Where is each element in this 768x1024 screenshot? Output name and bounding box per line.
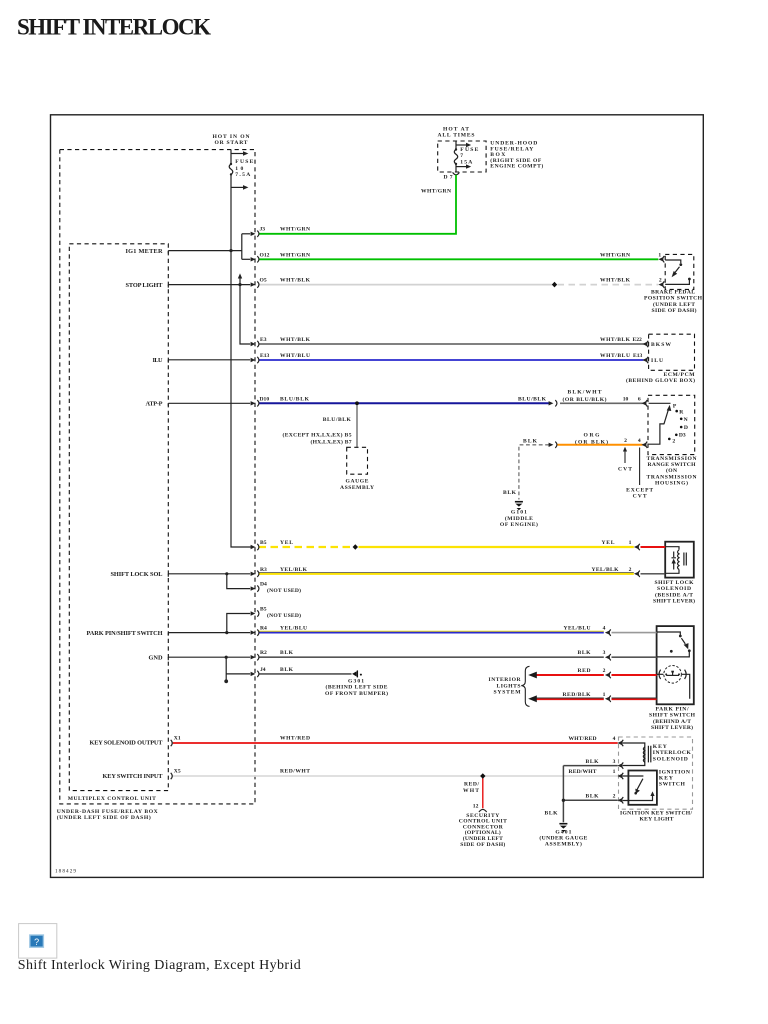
- svg-text:1: 1: [613, 769, 616, 775]
- svg-text:HOUSING): HOUSING): [655, 480, 688, 487]
- svg-text:OF ENGINE): OF ENGINE): [500, 521, 538, 528]
- svg-text:WHT: WHT: [463, 788, 479, 794]
- svg-text:BLK: BLK: [280, 667, 294, 673]
- svg-text:SHIFT LOCK: SHIFT LOCK: [655, 580, 695, 586]
- svg-text:YEL/BLU: YEL/BLU: [280, 626, 307, 632]
- svg-text:POSITION SWITCH: POSITION SWITCH: [644, 296, 703, 302]
- svg-text:E13: E13: [260, 353, 270, 359]
- svg-text:ATP-P: ATP-P: [146, 401, 163, 408]
- svg-text:BLU/BLK: BLU/BLK: [280, 396, 310, 402]
- svg-text:SOLENOID: SOLENOID: [657, 586, 691, 592]
- svg-text:D7: D7: [444, 174, 453, 180]
- svg-text:IGNITION KEY SWITCH/: IGNITION KEY SWITCH/: [620, 811, 692, 817]
- svg-text:RED/WHT: RED/WHT: [280, 769, 310, 775]
- svg-text:SHIFT LEVER): SHIFT LEVER): [653, 598, 695, 605]
- svg-text:R: R: [679, 410, 684, 416]
- svg-text:E13: E13: [633, 353, 643, 359]
- svg-text:(NOT USED): (NOT USED): [267, 612, 301, 619]
- svg-text:FUSE: FUSE: [235, 159, 253, 165]
- svg-text:WHT/BLK: WHT/BLK: [280, 337, 311, 343]
- svg-text:SWITCH: SWITCH: [659, 782, 686, 788]
- svg-text:YEL: YEL: [602, 540, 615, 546]
- svg-text:(BEHIND GLOVE BOX): (BEHIND GLOVE BOX): [626, 377, 695, 384]
- svg-text:(UNDER LEFT SIDE OF DASH): (UNDER LEFT SIDE OF DASH): [57, 814, 151, 821]
- svg-text:(OR BLK): (OR BLK): [575, 438, 608, 445]
- svg-text:BLK: BLK: [523, 438, 538, 444]
- svg-text:IGNITION: IGNITION: [659, 769, 690, 775]
- svg-text:(BESIDE A/T: (BESIDE A/T: [655, 591, 693, 598]
- svg-text:LIGHTS: LIGHTS: [497, 683, 521, 689]
- svg-text:ASSEMBLY): ASSEMBLY): [545, 840, 582, 847]
- svg-text:2: 2: [672, 439, 675, 445]
- svg-text:R3: R3: [260, 567, 267, 573]
- svg-text:WHT/BLK: WHT/BLK: [600, 337, 631, 343]
- svg-text:YEL/BLU: YEL/BLU: [564, 626, 591, 632]
- svg-text:X1: X1: [174, 736, 181, 742]
- svg-text:R2: R2: [260, 650, 267, 656]
- svg-text:X5: X5: [174, 769, 181, 775]
- svg-text:(BEHIND A/T: (BEHIND A/T: [653, 718, 691, 725]
- svg-text:RED/BLK: RED/BLK: [563, 692, 592, 698]
- svg-text:PARK PIN/: PARK PIN/: [656, 707, 689, 713]
- svg-text:O5: O5: [260, 278, 267, 284]
- svg-text:J3: J3: [260, 227, 266, 233]
- svg-text:7: 7: [460, 153, 463, 159]
- svg-text:CVT: CVT: [633, 494, 647, 500]
- svg-text:YEL/BLK: YEL/BLK: [592, 567, 620, 573]
- svg-text:INTERIOR: INTERIOR: [489, 677, 522, 683]
- svg-text:PARK PIN/SHIFT SWITCH: PARK PIN/SHIFT SWITCH: [87, 630, 163, 637]
- svg-text:BLK: BLK: [578, 650, 592, 656]
- svg-text:YEL/BLK: YEL/BLK: [280, 567, 308, 573]
- svg-text:ENGINE COMPT): ENGINE COMPT): [490, 163, 543, 170]
- svg-text:KEY: KEY: [653, 744, 667, 750]
- svg-text:(UNDER LEFT: (UNDER LEFT: [653, 301, 695, 308]
- svg-text:KEY LIGHT: KEY LIGHT: [640, 817, 674, 823]
- svg-text:BLK: BLK: [280, 650, 294, 656]
- svg-text:G101: G101: [511, 510, 527, 516]
- svg-text:P: P: [673, 404, 677, 410]
- svg-text:GND: GND: [149, 654, 163, 661]
- svg-text:BLU/BLK: BLU/BLK: [518, 396, 547, 402]
- svg-text:CVT: CVT: [618, 466, 632, 472]
- svg-text:SIDE OF DASH): SIDE OF DASH): [652, 307, 697, 314]
- svg-text:188429: 188429: [55, 869, 76, 875]
- svg-text:ASSEMBLY: ASSEMBLY: [340, 485, 374, 491]
- svg-text:SHIFT LOCK SOL: SHIFT LOCK SOL: [111, 571, 163, 578]
- svg-text:2: 2: [613, 793, 616, 799]
- svg-text:WHT/BLU: WHT/BLU: [600, 353, 630, 359]
- svg-text:ILU: ILU: [153, 357, 163, 364]
- svg-text:EXCEPT: EXCEPT: [626, 488, 653, 494]
- svg-text:TRANSMISSION: TRANSMISSION: [647, 474, 697, 480]
- svg-text:YEL: YEL: [280, 540, 293, 546]
- svg-text:G301: G301: [348, 679, 364, 685]
- svg-text:4: 4: [613, 736, 616, 742]
- svg-text:2: 2: [629, 567, 632, 573]
- svg-text:WHT/GRN: WHT/GRN: [280, 227, 310, 233]
- svg-text:WHT/GRN: WHT/GRN: [280, 252, 310, 258]
- svg-text:3: 3: [603, 650, 606, 656]
- svg-text:N: N: [684, 417, 688, 423]
- svg-text:J4: J4: [260, 667, 266, 673]
- svg-text:E3: E3: [260, 337, 267, 343]
- svg-text:2: 2: [624, 438, 627, 444]
- svg-text:3: 3: [613, 759, 616, 765]
- svg-text:1: 1: [629, 540, 632, 546]
- svg-text:SIDE OF DASH): SIDE OF DASH): [460, 841, 505, 848]
- svg-text:WHT/GRN: WHT/GRN: [421, 189, 451, 195]
- svg-text:(MIDDLE: (MIDDLE: [505, 515, 533, 522]
- svg-text:KEY SOLENOID OUTPUT: KEY SOLENOID OUTPUT: [90, 740, 164, 747]
- svg-text:(EXCEPT HX,LX,EX) B5: (EXCEPT HX,LX,EX) B5: [283, 431, 352, 438]
- svg-text:ORG: ORG: [584, 433, 601, 439]
- svg-text:SHIFT INTERLOCK: SHIFT INTERLOCK: [17, 15, 211, 40]
- svg-text:B5: B5: [260, 607, 267, 613]
- svg-text:1: 1: [603, 692, 606, 698]
- svg-text:(BEHIND LEFT SIDE: (BEHIND LEFT SIDE: [326, 684, 388, 691]
- svg-text:BLK: BLK: [586, 759, 600, 765]
- svg-text:WHT/BLK: WHT/BLK: [600, 278, 631, 284]
- svg-text:OR START: OR START: [215, 140, 248, 146]
- svg-text:(HX,LX,EX) B7: (HX,LX,EX) B7: [311, 438, 352, 445]
- svg-text:KEY SWITCH INPUT: KEY SWITCH INPUT: [103, 773, 164, 780]
- svg-text:15A: 15A: [460, 160, 472, 166]
- svg-text:O12: O12: [260, 252, 270, 258]
- svg-text:SOLENOID: SOLENOID: [653, 756, 688, 762]
- svg-text:1: 1: [658, 252, 661, 258]
- svg-text:12: 12: [473, 804, 479, 810]
- svg-text:BLU/BLK: BLU/BLK: [323, 417, 352, 423]
- svg-text:INTERLOCK: INTERLOCK: [653, 750, 692, 756]
- svg-text:TRANSMISSION: TRANSMISSION: [647, 456, 697, 462]
- svg-text:ILU: ILU: [651, 358, 663, 364]
- svg-text:RANGE SWITCH: RANGE SWITCH: [648, 462, 697, 468]
- svg-text:D4: D4: [260, 582, 267, 588]
- svg-text:WHT/BLK: WHT/BLK: [280, 278, 311, 284]
- svg-text:2: 2: [603, 668, 606, 674]
- svg-text:SHIFT SWITCH: SHIFT SWITCH: [649, 713, 696, 719]
- svg-text:GAUGE: GAUGE: [346, 479, 369, 485]
- svg-text:7.5A: 7.5A: [235, 172, 250, 178]
- svg-text:RED: RED: [578, 668, 591, 674]
- svg-text:Shift Interlock Wiring Diagram: Shift Interlock Wiring Diagram, Except H…: [18, 958, 301, 973]
- svg-text:RED/: RED/: [464, 782, 479, 788]
- svg-text:BLK: BLK: [545, 811, 559, 817]
- svg-text:(OR BLU/BLK): (OR BLU/BLK): [563, 396, 607, 403]
- svg-text:FUSE: FUSE: [460, 147, 478, 153]
- svg-text:10: 10: [623, 396, 629, 402]
- svg-text:WHT/RED: WHT/RED: [280, 736, 310, 742]
- svg-text:SYSTEM: SYSTEM: [494, 690, 522, 696]
- svg-text:BLK/WHT: BLK/WHT: [568, 389, 602, 395]
- svg-text:4: 4: [603, 626, 606, 632]
- svg-text:4: 4: [638, 438, 641, 444]
- svg-text:RED/WHT: RED/WHT: [569, 769, 597, 775]
- svg-text:(ON: (ON: [666, 467, 677, 474]
- svg-text:BRAKE PEDAL: BRAKE PEDAL: [651, 290, 695, 296]
- svg-text:IG1 METER: IG1 METER: [126, 248, 163, 255]
- svg-text:WHT/RED: WHT/RED: [569, 736, 597, 742]
- svg-text:10: 10: [235, 166, 243, 172]
- svg-text:E22: E22: [633, 337, 643, 343]
- svg-text:KEY: KEY: [659, 776, 673, 782]
- svg-text:ALL TIMES: ALL TIMES: [438, 132, 475, 138]
- svg-text:WHT/BLU: WHT/BLU: [280, 353, 310, 359]
- svg-text:MULTIPLEX CONTROL UNIT: MULTIPLEX CONTROL UNIT: [68, 796, 156, 802]
- svg-text:?: ?: [34, 937, 39, 947]
- svg-text:B5: B5: [260, 540, 267, 546]
- svg-text:(NOT USED): (NOT USED): [267, 587, 301, 594]
- svg-text:BLK: BLK: [586, 793, 600, 799]
- svg-text:R4: R4: [260, 626, 267, 632]
- svg-text:OF FRONT BUMPER): OF FRONT BUMPER): [325, 690, 388, 697]
- svg-text:STOP LIGHT: STOP LIGHT: [126, 282, 164, 289]
- svg-text:SHIFT LEVER): SHIFT LEVER): [651, 724, 693, 731]
- svg-text:WHT/GRN: WHT/GRN: [600, 252, 630, 258]
- svg-text:BKSW: BKSW: [651, 342, 671, 348]
- svg-text:D: D: [684, 425, 688, 431]
- svg-text:ECM/PCM: ECM/PCM: [664, 372, 696, 378]
- svg-text:D3: D3: [679, 432, 686, 438]
- svg-text:D10: D10: [260, 396, 270, 402]
- svg-text:6: 6: [638, 396, 641, 402]
- svg-text:BLK: BLK: [503, 490, 517, 496]
- svg-text:2: 2: [659, 278, 662, 284]
